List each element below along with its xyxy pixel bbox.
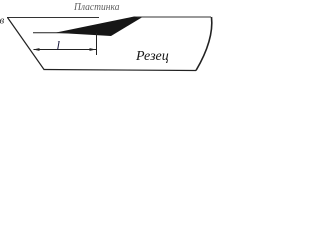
- plate sole line: [33, 32, 70, 34]
- tool top face line: [7, 17, 99, 19]
- right edge (curved): [196, 17, 212, 71]
- svg-text:l: l: [57, 39, 61, 53]
- dimension line l: [34, 49, 97, 51]
- body top edge: [137, 16, 211, 18]
- left arrowhead: [33, 48, 40, 51]
- right arrowhead: [90, 48, 97, 51]
- carbide plate (black wedge): [55, 17, 143, 37]
- left slant edge: [8, 18, 45, 70]
- svg-text:в: в: [0, 15, 5, 27]
- bottom edge: [44, 70, 197, 71]
- svg-text:Резец: Резец: [135, 49, 169, 64]
- svg-text:Пластинка: Пластинка: [73, 2, 119, 13]
- extension line: [96, 33, 98, 55]
